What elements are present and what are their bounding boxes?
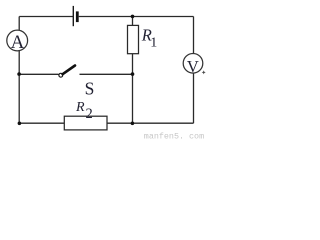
svg-text:manfen5. com: manfen5. com (144, 132, 204, 140)
wire switch left segment (19, 73, 58, 75)
wire top-left segment (19, 16, 73, 18)
svg-text:1: 1 (150, 36, 157, 51)
wire middle vertical (132, 17, 134, 124)
wire bottom (19, 122, 193, 124)
node junction bottom left (18, 122, 22, 126)
node junction bottom middle (131, 122, 135, 126)
resistor R1 (128, 25, 158, 53)
wire switch right segment (80, 73, 133, 75)
svg-text:A: A (11, 32, 25, 53)
voltmeter V (183, 54, 203, 77)
wire right vertical (193, 17, 195, 124)
battery (73, 6, 78, 26)
node junction top middle (131, 15, 135, 19)
node junction middle switch (131, 72, 135, 76)
asterisk mark near voltmeter (202, 70, 206, 74)
svg-text:V: V (187, 57, 199, 76)
svg-text:2: 2 (86, 106, 93, 122)
svg-text:R: R (75, 100, 85, 115)
switch S (59, 66, 94, 99)
node junction left switch (17, 72, 21, 76)
svg-text:S: S (85, 78, 95, 98)
wire top-right segment (79, 16, 194, 18)
resistor R2 (64, 100, 107, 130)
ammeter A (7, 30, 28, 53)
wire left vertical (18, 17, 20, 124)
